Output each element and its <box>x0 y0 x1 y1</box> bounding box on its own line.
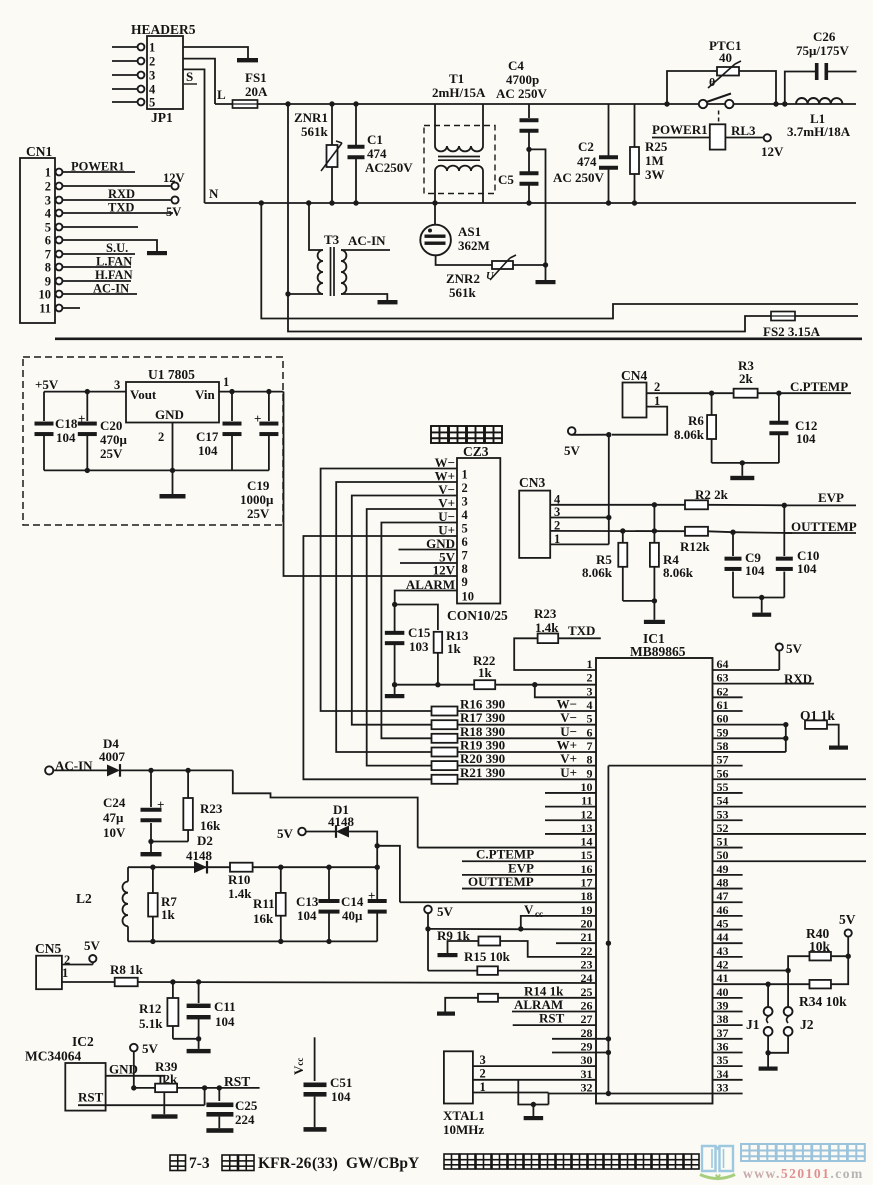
IC1 pin57 wire <box>608 765 742 767</box>
svg-text:64: 64 <box>717 657 729 671</box>
wire CN1 pin3 <box>63 199 171 201</box>
svg-text:37: 37 <box>717 1026 729 1040</box>
svg-text:50: 50 <box>717 848 729 862</box>
svg-text:5: 5 <box>587 712 593 726</box>
svg-text:38: 38 <box>717 1012 729 1026</box>
wire CN5 pin2 to 5V <box>62 964 93 966</box>
svg-text:L2: L2 <box>76 891 92 906</box>
svg-text:AC-IN: AC-IN <box>348 233 386 248</box>
svg-text:RST: RST <box>78 1090 104 1105</box>
svg-text:18: 18 <box>581 889 593 903</box>
junction R4 bottom <box>652 598 657 603</box>
svg-text:OUTTEMP: OUTTEMP <box>468 874 534 889</box>
junction C11 bottom <box>196 1036 201 1041</box>
transformer T3 primary <box>309 203 323 250</box>
capacitor C10 104 <box>783 505 785 556</box>
wire JP1 pin to ground <box>183 47 248 58</box>
resistor R16 390 <box>432 707 458 716</box>
svg-text:1.4k: 1.4k <box>228 886 252 901</box>
svg-text:104: 104 <box>297 908 317 923</box>
wire bottom rail L2 <box>128 940 377 942</box>
svg-text:CN3: CN3 <box>519 475 545 490</box>
junction R7 top <box>150 865 155 870</box>
svg-text:C17: C17 <box>196 429 219 444</box>
junction R12 top <box>170 979 175 984</box>
svg-text:56: 56 <box>717 766 729 780</box>
svg-text:15: 15 <box>581 848 593 862</box>
wire bus A down from N <box>261 203 858 319</box>
svg-text:11: 11 <box>581 794 592 808</box>
svg-text:POWER1: POWER1 <box>71 160 124 174</box>
junction C12 top <box>776 391 781 396</box>
wire bus B from L via T3 <box>287 104 289 294</box>
svg-text:JP1: JP1 <box>151 110 173 125</box>
wire CZ3 U- to resistor <box>381 523 457 739</box>
junction RST node <box>202 1085 207 1090</box>
wire R19 to IC pin7 <box>458 751 597 753</box>
svg-text:1k: 1k <box>447 641 462 656</box>
IC1 right stubs <box>713 696 743 698</box>
svg-text:561k: 561k <box>301 124 329 139</box>
svg-text:C4: C4 <box>508 58 524 73</box>
svg-text:6: 6 <box>587 725 593 739</box>
svg-text:3: 3 <box>45 194 51 208</box>
label power module (CJK) <box>431 426 448 443</box>
svg-text:L.FAN: L.FAN <box>96 255 132 269</box>
junction N-T1/AS1 <box>432 200 437 205</box>
svg-text:C1: C1 <box>367 132 383 147</box>
wire pins58-60 tie <box>785 725 787 752</box>
wire ZNR2 to ground <box>513 264 546 266</box>
ground at JP1 <box>237 58 258 62</box>
wire CZ3 W- to resistor <box>321 469 457 712</box>
arrester AS1 362M <box>434 203 436 225</box>
junction J1J2 gnd <box>765 1050 770 1055</box>
svg-text:10MHz: 10MHz <box>443 1122 484 1137</box>
IC1 pin58 wire <box>713 751 786 753</box>
svg-text:POWER1: POWER1 <box>652 122 708 137</box>
jumper J1 <box>767 984 769 1007</box>
svg-text:4: 4 <box>149 83 156 97</box>
svg-text:6: 6 <box>462 535 468 549</box>
junction R13 bottom <box>435 682 440 687</box>
svg-text:63: 63 <box>717 671 729 685</box>
svg-text:U1 7805: U1 7805 <box>148 367 195 382</box>
wire IC2 RST out <box>78 1104 205 1106</box>
crystal XTAL1 10MHz <box>444 1051 473 1103</box>
svg-text:+: + <box>254 411 261 426</box>
wire to IC1 pin3 <box>535 685 596 698</box>
svg-text:2mH/15A: 2mH/15A <box>432 85 486 100</box>
junction 5V-CN3pin3 <box>606 515 611 520</box>
wire Q1 to ground <box>827 725 839 746</box>
IC1 pin19 Vcc wire <box>521 916 596 929</box>
capacitor C19 1000u 25V <box>268 392 270 421</box>
svg-text:5V: 5V <box>166 205 181 219</box>
svg-text:C.PTEMP: C.PTEMP <box>790 379 848 394</box>
svg-text:3.7mH/18A: 3.7mH/18A <box>787 124 851 139</box>
svg-text:C18: C18 <box>55 416 78 431</box>
svg-text:C5: C5 <box>498 172 514 187</box>
svg-text:1: 1 <box>223 375 229 389</box>
capacitor C15 103 <box>394 605 396 632</box>
svg-text:V: V <box>524 902 534 917</box>
svg-text:R12k: R12k <box>680 539 710 554</box>
svg-text:D2: D2 <box>197 833 213 848</box>
svg-text:46: 46 <box>717 903 729 917</box>
wire CN3 pin4 row EVP <box>550 504 654 506</box>
IC1 left pin stubs 10-13 <box>545 792 596 794</box>
wire top rail L2 to C14 <box>128 866 377 868</box>
svg-text:C15: C15 <box>408 625 431 640</box>
ground at C24 <box>150 842 152 853</box>
svg-text:25V: 25V <box>247 506 270 521</box>
watermark site name (CJK) <box>741 1144 758 1161</box>
svg-text:IC2: IC2 <box>72 1034 94 1049</box>
IC1 pin29 stub <box>552 1051 608 1053</box>
svg-text:C26: C26 <box>813 29 836 44</box>
svg-text:2: 2 <box>462 481 468 495</box>
svg-text:44: 44 <box>717 930 729 944</box>
svg-text:TXD: TXD <box>108 201 134 215</box>
resistor R12k <box>685 527 708 536</box>
svg-text:22: 22 <box>581 944 593 958</box>
svg-text:25V: 25V <box>100 446 123 461</box>
transformer T1 primary winding <box>434 104 436 146</box>
svg-text:2: 2 <box>149 55 155 69</box>
svg-text:CN5: CN5 <box>35 941 61 956</box>
svg-text:R15 10k: R15 10k <box>464 949 511 964</box>
svg-text:10: 10 <box>581 780 593 794</box>
junction R11 bottom <box>278 939 283 944</box>
svg-text:3W: 3W <box>645 167 665 182</box>
wire CZ3 V+ to resistor <box>367 509 457 766</box>
junction L-288 <box>285 101 290 106</box>
wire CZ3 5V stub <box>400 562 457 564</box>
junction R5 top <box>620 528 625 533</box>
svg-text:5: 5 <box>462 522 468 536</box>
svg-text:53: 53 <box>717 807 729 821</box>
junction C24 top <box>148 768 153 773</box>
svg-text:1: 1 <box>62 966 68 980</box>
svg-text:5V: 5V <box>786 641 803 656</box>
junction R4 top <box>652 502 657 507</box>
svg-text:4: 4 <box>45 207 52 221</box>
IC1 pin54 long wire <box>713 806 867 808</box>
svg-text:19: 19 <box>581 903 593 917</box>
svg-text:www.520101.com: www.520101.com <box>743 1166 864 1181</box>
junction pin42 <box>785 968 790 973</box>
svg-text:L: L <box>217 87 226 102</box>
transformer T1 secondary winding <box>435 166 483 171</box>
wire R9 to pin22 <box>500 941 596 957</box>
svg-text:R23: R23 <box>200 801 223 816</box>
svg-text:75μ/175V: 75μ/175V <box>796 43 849 58</box>
svg-text:5V: 5V <box>277 826 294 841</box>
svg-text:51: 51 <box>717 835 729 849</box>
wire R5R4 bottom rail <box>623 600 655 602</box>
svg-text:R21 390: R21 390 <box>460 765 505 780</box>
IC1 pin60 wire to Q1 <box>713 724 786 726</box>
svg-text:20: 20 <box>581 917 593 931</box>
svg-text:45: 45 <box>717 917 729 931</box>
svg-text:5V: 5V <box>564 443 581 458</box>
svg-text:14: 14 <box>581 835 593 849</box>
svg-text:C11: C11 <box>214 999 236 1014</box>
IC1 pin15 wire <box>462 860 596 862</box>
varistor ZNR2 561k <box>492 261 513 269</box>
ground at IC2 <box>152 1114 178 1118</box>
svg-text:MC34064: MC34064 <box>25 1049 81 1064</box>
svg-text:8: 8 <box>587 753 593 767</box>
junction T3-busB <box>285 291 290 296</box>
svg-text:34: 34 <box>717 1067 729 1081</box>
svg-text:5V: 5V <box>437 904 454 919</box>
jumper J2 <box>787 971 789 1007</box>
svg-text:R6: R6 <box>688 413 704 428</box>
wire separator line <box>55 337 862 340</box>
IC1 pin17 wire <box>462 888 596 890</box>
svg-text:23: 23 <box>581 958 593 972</box>
svg-text:55: 55 <box>717 780 729 794</box>
svg-text:362M: 362M <box>458 238 490 253</box>
svg-text:9: 9 <box>45 275 51 289</box>
svg-text:AS1: AS1 <box>458 224 481 239</box>
wire CN4 bottom rail <box>712 462 779 464</box>
wire to IC1 pin2 <box>535 684 596 686</box>
junction C25 top <box>217 1085 222 1090</box>
svg-text:1k: 1k <box>478 665 493 680</box>
terminal AC-IN <box>45 766 53 774</box>
svg-text:1: 1 <box>587 657 593 671</box>
wire IC2 GND to ground <box>106 1076 165 1115</box>
svg-text:32: 32 <box>581 1080 593 1094</box>
junction N-ZNR1 <box>329 200 334 205</box>
svg-text:AC 250V: AC 250V <box>496 86 548 101</box>
svg-text:47μ: 47μ <box>103 810 124 825</box>
svg-text:RST: RST <box>539 1011 565 1026</box>
svg-text:12V: 12V <box>433 563 456 578</box>
svg-text:R12: R12 <box>139 1001 161 1016</box>
terminal 5V at pin64 <box>778 651 780 671</box>
svg-text:AC250V: AC250V <box>365 160 413 175</box>
wire 5V vertical to CN3 <box>608 435 610 545</box>
wire R18 to IC pin6 <box>458 737 597 739</box>
ground at C51 <box>304 1127 327 1132</box>
svg-text:16: 16 <box>581 862 593 876</box>
svg-text:3: 3 <box>114 378 120 392</box>
IC1 pin16 wire <box>462 874 596 876</box>
wire CN1 pin2 <box>63 185 171 187</box>
junction Q1 in <box>783 722 788 727</box>
terminal 12V at RL3 <box>764 134 771 141</box>
svg-text:U+: U+ <box>560 765 577 780</box>
svg-text:C13: C13 <box>296 894 319 909</box>
capacitor C17 104 <box>231 392 233 421</box>
wire CN4 pin1 loop <box>612 407 667 435</box>
wire CN3 pin3 to 5V <box>550 517 609 519</box>
svg-text:ZNR2: ZNR2 <box>446 271 480 286</box>
svg-text:T3: T3 <box>324 232 340 247</box>
svg-text:4007: 4007 <box>99 749 126 764</box>
svg-text:9: 9 <box>587 766 593 780</box>
svg-text:7: 7 <box>462 549 468 563</box>
junction N-R25 <box>632 200 637 205</box>
junction pin59 <box>783 736 788 741</box>
svg-text:KFR-26: KFR-26 <box>258 1155 312 1172</box>
svg-text:30: 30 <box>581 1053 593 1067</box>
svg-text:5: 5 <box>149 96 155 110</box>
IC1 pin41 wire to R34/J1 <box>713 983 810 985</box>
connector CN5 body <box>36 956 62 990</box>
svg-text:48: 48 <box>717 876 729 890</box>
resistor R21 390 <box>432 775 458 784</box>
wire CN1 pin10 <box>63 293 138 295</box>
svg-text:42: 42 <box>717 958 729 972</box>
svg-text:J1: J1 <box>746 1017 760 1032</box>
junction L-C1 <box>353 101 358 106</box>
svg-text:104: 104 <box>745 563 765 578</box>
svg-text:39: 39 <box>717 999 729 1013</box>
wire U1 pin2 <box>172 423 174 471</box>
junction L-C26b <box>782 101 787 106</box>
svg-text:8.06k: 8.06k <box>582 565 613 580</box>
wire CN1 pin8 <box>63 266 132 268</box>
svg-text:40μ: 40μ <box>342 908 363 923</box>
svg-text:2k: 2k <box>739 371 754 386</box>
svg-text:7: 7 <box>45 248 51 262</box>
svg-text:J2: J2 <box>800 1017 814 1032</box>
IC1 pin59 wire <box>713 737 786 739</box>
wire JP1 S to N line <box>183 69 205 203</box>
svg-text:6: 6 <box>45 234 51 248</box>
svg-text:AC 250V: AC 250V <box>553 170 605 185</box>
svg-text:C2: C2 <box>578 139 594 154</box>
wire R21 to IC pin9 <box>458 778 597 780</box>
junction L-PTC <box>664 101 669 106</box>
IC1 pin26 stub <box>512 1011 596 1013</box>
svg-text:1M: 1M <box>645 153 664 168</box>
svg-text:25: 25 <box>581 985 593 999</box>
resistor R17 390 <box>432 720 458 729</box>
wire XTAL pin1 <box>473 1092 549 1094</box>
terminal 5V at R40 <box>847 937 849 957</box>
wire U1 pin3 rail <box>44 391 126 393</box>
IC1 pin14 wire from AC-IN <box>418 847 596 849</box>
terminal 5V near CN4 <box>568 427 576 435</box>
svg-text:35: 35 <box>717 1053 729 1067</box>
wire 12V feed down to CZ3 <box>284 392 458 576</box>
svg-text:470μ: 470μ <box>100 432 128 447</box>
svg-text:7-3: 7-3 <box>189 1155 210 1172</box>
ground at R14 <box>437 1012 455 1016</box>
junction N-C2 <box>606 200 611 205</box>
svg-text:104: 104 <box>797 561 817 576</box>
svg-text:XTAL1: XTAL1 <box>443 1108 485 1123</box>
ground at Q1 <box>829 746 848 750</box>
svg-text:MB89865: MB89865 <box>630 644 686 659</box>
svg-text:FS2 3.15A: FS2 3.15A <box>763 324 821 339</box>
svg-text:36: 36 <box>717 1039 729 1053</box>
svg-text:R25: R25 <box>645 139 668 154</box>
ground at U1 <box>172 470 174 494</box>
wire N line <box>205 202 857 204</box>
svg-text:C51: C51 <box>330 1075 352 1090</box>
svg-text:3: 3 <box>587 684 593 698</box>
junction N-T3 <box>306 200 311 205</box>
wire C9C10 bottom rail <box>733 597 784 599</box>
wire CN3 pin2 row OUTTEMP <box>550 530 687 532</box>
junction R6 top <box>709 391 714 396</box>
wire JP1 to L line <box>183 59 215 104</box>
junction ZNR2-gnd <box>543 262 548 267</box>
svg-text:40: 40 <box>719 50 732 65</box>
svg-text:(33): (33) <box>312 1155 338 1172</box>
IC1 pin50 long wire <box>713 860 867 862</box>
capacitor C9 104 <box>732 532 734 556</box>
junction C20 top <box>85 389 90 394</box>
svg-text:8: 8 <box>45 261 51 275</box>
wire C4C5 node to ZNR2 <box>529 149 546 265</box>
svg-text:cc: cc <box>535 909 543 919</box>
wire CN1 pin11 <box>63 307 81 309</box>
svg-text:R8 1k: R8 1k <box>110 962 144 977</box>
relay switch POWER1 <box>699 100 707 108</box>
ground at R9 <box>438 953 458 957</box>
wire CN3 pin1 to 5V vert <box>550 543 609 545</box>
svg-text:54: 54 <box>717 794 729 808</box>
junction pin28 inner <box>606 1036 611 1041</box>
svg-text:1: 1 <box>149 41 155 55</box>
IC1 pin63 wire RXD <box>713 683 815 685</box>
wire CZ3 U+ to resistor <box>303 536 457 779</box>
wire ALARM to R13 <box>395 605 438 631</box>
connector CN4 body <box>623 383 647 418</box>
svg-text:5V: 5V <box>142 1041 159 1056</box>
svg-text:CN1: CN1 <box>26 144 52 159</box>
svg-text:RL3: RL3 <box>731 123 756 138</box>
resistor R20 390 <box>432 761 458 770</box>
svg-text:49: 49 <box>717 862 729 876</box>
svg-text:R34 10k: R34 10k <box>799 994 847 1009</box>
svg-text:104: 104 <box>796 431 816 446</box>
svg-text:CON10/25: CON10/25 <box>447 608 508 623</box>
IC1 pin18 wire <box>400 901 596 903</box>
connector JP1 body <box>147 36 183 109</box>
svg-text:9: 9 <box>462 575 468 589</box>
svg-text:12V: 12V <box>761 144 784 159</box>
svg-text:10V: 10V <box>103 825 126 840</box>
svg-text:33: 33 <box>717 1080 729 1094</box>
svg-text:C25: C25 <box>235 1098 258 1113</box>
junction C4-C5 node <box>526 147 531 152</box>
svg-text:28: 28 <box>581 1026 593 1040</box>
svg-text:17: 17 <box>581 876 593 890</box>
terminal 12V <box>171 182 178 189</box>
svg-text:3: 3 <box>149 69 155 83</box>
ground at CN4 <box>741 463 743 476</box>
wire 5V to R39 <box>133 1051 135 1088</box>
junction L-C26a <box>773 101 778 106</box>
svg-text:29: 29 <box>581 1039 593 1053</box>
svg-text:104: 104 <box>215 1014 235 1029</box>
wire R23 to IC1 pin1 <box>514 638 596 670</box>
junction C14 top <box>375 865 380 870</box>
junction R11 top <box>278 865 283 870</box>
junction CN4 gnd <box>740 460 745 465</box>
ground at C15 <box>394 685 396 694</box>
svg-text:TXD: TXD <box>568 623 595 638</box>
